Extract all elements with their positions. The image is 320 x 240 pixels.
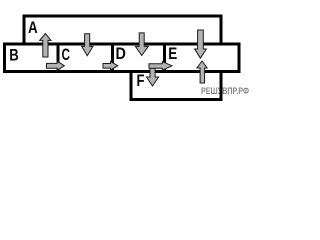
- svg-text:C: C: [62, 45, 71, 64]
- right arrow C to D: [103, 61, 118, 70]
- svg-text:A: A: [28, 18, 38, 37]
- down arrow A to E: [195, 30, 207, 58]
- svg-text:E: E: [168, 44, 177, 63]
- divider D|E: [163, 44, 166, 72]
- down arrow D to F: [147, 64, 159, 86]
- up arrow F to E: [197, 61, 207, 83]
- box A: [24, 16, 221, 44]
- svg-text:B: B: [9, 45, 18, 64]
- divider C|D: [111, 44, 114, 72]
- svg-text:F: F: [137, 71, 145, 90]
- right arrow B to C: [47, 61, 65, 70]
- down arrow A to C: [82, 34, 93, 56]
- svg-text:D: D: [116, 44, 126, 63]
- divider B|C: [57, 44, 60, 72]
- down arrow A to D: [135, 33, 148, 56]
- svg-text:РЕШУВПР.РФ: РЕШУВПР.РФ: [201, 86, 249, 96]
- up arrow B to A: [40, 34, 51, 58]
- right arrow D to E: [149, 62, 172, 71]
- box F: [131, 72, 221, 100]
- row box B..E: [5, 44, 240, 72]
